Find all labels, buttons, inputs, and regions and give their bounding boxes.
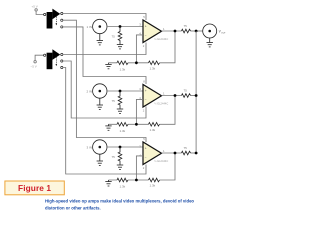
resistor RT3 75 termination	[118, 147, 122, 165]
svg-text:−5 V: −5 V	[31, 65, 37, 69]
svg-text:75: 75	[112, 35, 116, 39]
wire RO3 to bus	[191, 152, 197, 154]
resistor RO1 75	[182, 29, 191, 33]
wire S2 throw1 to U1a pin2	[63, 43, 146, 55]
wire J1 to U1a +in	[107, 26, 143, 28]
svg-text:1.3k: 1.3k	[120, 68, 126, 72]
node junction ch1 input	[119, 25, 122, 28]
svg-text:2 IN: 2 IN	[87, 90, 93, 94]
svg-text:−: −	[145, 98, 147, 102]
svg-text:1.3k: 1.3k	[150, 128, 156, 132]
node junction ch2 input	[119, 90, 122, 93]
svg-text:75: 75	[184, 89, 188, 93]
connector J1 input BNC	[93, 19, 107, 33]
wire J3 to U1c +in	[107, 146, 143, 148]
switch S2 arrow	[47, 49, 61, 69]
switch S1 common terminal	[44, 13, 46, 15]
Figure 1 callout box	[5, 181, 64, 195]
wire U1b -in feedback	[136, 99, 143, 124]
node ch2 fb junction	[135, 123, 138, 126]
wire U1c -in feedback	[136, 156, 143, 180]
resistor RT1 75 termination	[118, 27, 122, 45]
svg-text:75: 75	[112, 155, 116, 159]
svg-text:+: +	[145, 147, 147, 151]
wire U1c output	[162, 152, 182, 154]
wire S1 throw3 to U1b enable	[63, 27, 146, 84]
switch S2 common terminal	[44, 54, 46, 56]
svg-text:¼ EL2444C: ¼ EL2444C	[155, 101, 169, 105]
wire S1 throw1 to U1a enable	[63, 14, 146, 21]
node ch3 fb junction	[135, 179, 138, 182]
svg-text:−: −	[145, 156, 147, 160]
svg-text:+: +	[145, 89, 147, 93]
svg-text:OUT: OUT	[221, 32, 226, 34]
wire U1b output	[162, 95, 182, 97]
resistor RO3 75	[182, 151, 191, 155]
node bus ch2	[195, 94, 198, 97]
wire S2 throw3 to U1c pin2	[63, 68, 146, 175]
svg-text:1.3k: 1.3k	[120, 185, 126, 189]
wire ch2 feedback row	[109, 96, 176, 125]
wire ch3 feedback row	[109, 153, 176, 180]
wire ch1 feedback row	[109, 31, 176, 63]
ground under RT3	[117, 165, 123, 169]
ground under J2	[97, 98, 103, 109]
wire RO2 to bus	[191, 95, 197, 97]
wire U1a output	[162, 30, 182, 32]
node bus ch1	[195, 30, 198, 33]
ground under RT1	[117, 45, 123, 49]
node ch2 output junction	[174, 94, 177, 97]
node ch1 output junction	[174, 30, 177, 33]
ground under J3	[97, 154, 103, 165]
svg-text:−: −	[145, 34, 147, 38]
ground ch3 feedback	[105, 180, 111, 186]
op-amp U1c	[143, 142, 162, 165]
svg-text:Figure 1: Figure 1	[18, 183, 51, 193]
svg-text:75: 75	[184, 146, 188, 150]
svg-text:¼ EL2444C: ¼ EL2444C	[155, 159, 169, 163]
ground ch1 feedback	[105, 63, 111, 69]
svg-text:3 IN: 3 IN	[87, 146, 93, 150]
svg-text:+5 V: +5 V	[32, 5, 38, 9]
svg-text:1.3k: 1.3k	[150, 184, 156, 188]
wire J2 to U1b +in	[107, 90, 143, 92]
wire RO1 to output bus	[191, 30, 203, 32]
node -5V terminal for S2	[34, 55, 44, 63]
switch S1 arrow	[47, 9, 61, 29]
wire S1 throw2 to U1c enable	[63, 20, 146, 142]
resistor RT2 75 termination	[118, 91, 122, 109]
switch S1 travel arrow	[55, 17, 57, 24]
svg-text:1.3k: 1.3k	[120, 129, 126, 133]
svg-text:1.3k: 1.3k	[150, 66, 156, 70]
ground under J4	[207, 38, 213, 47]
resistor RO2 75	[182, 94, 191, 98]
node ch3 output junction	[174, 152, 177, 155]
node junction ch3 input	[119, 146, 122, 149]
resistor RF2 1.3k	[149, 123, 160, 127]
svg-text:+: +	[145, 25, 147, 29]
svg-text:75: 75	[184, 24, 188, 28]
svg-text:High-speed video op amps make: High-speed video op amps make ideal vide…	[45, 199, 194, 204]
wire U1a -in feedback	[136, 35, 143, 63]
svg-text:distortion or other artifacts.: distortion or other artifacts.	[45, 206, 101, 211]
switch S1 throw contacts	[61, 12, 63, 28]
ground under RT2	[117, 109, 123, 113]
wire S2 throw2 to U1b pin2	[63, 61, 146, 118]
svg-text:¼ EL2444C: ¼ EL2444C	[155, 37, 169, 41]
connector J4 output BNC	[203, 24, 217, 38]
wire output bus	[195, 31, 197, 153]
resistor RG2 1.3k	[117, 123, 128, 127]
resistor RF3 1.3k	[149, 178, 160, 182]
resistor RG3 1.3k	[117, 178, 128, 182]
switch S2 throw contacts	[61, 53, 63, 68]
ground ch2 feedback	[105, 124, 111, 130]
ground under J1	[97, 34, 103, 45]
op-amp U1a	[143, 20, 162, 43]
connector J3 input BNC	[93, 140, 107, 154]
svg-text:1 IN: 1 IN	[87, 25, 93, 29]
node ch1 fb junction	[135, 61, 138, 64]
switch S2 travel arrow	[55, 57, 57, 64]
resistor RG1 1.3k	[117, 61, 128, 65]
node +5V terminal for S1	[35, 9, 44, 15]
svg-text:75: 75	[112, 99, 116, 103]
op-amp U1b	[143, 85, 162, 108]
resistor RF1 1.3k	[149, 61, 160, 65]
connector J2 input BNC	[93, 84, 107, 98]
node bus ch3	[195, 152, 198, 155]
